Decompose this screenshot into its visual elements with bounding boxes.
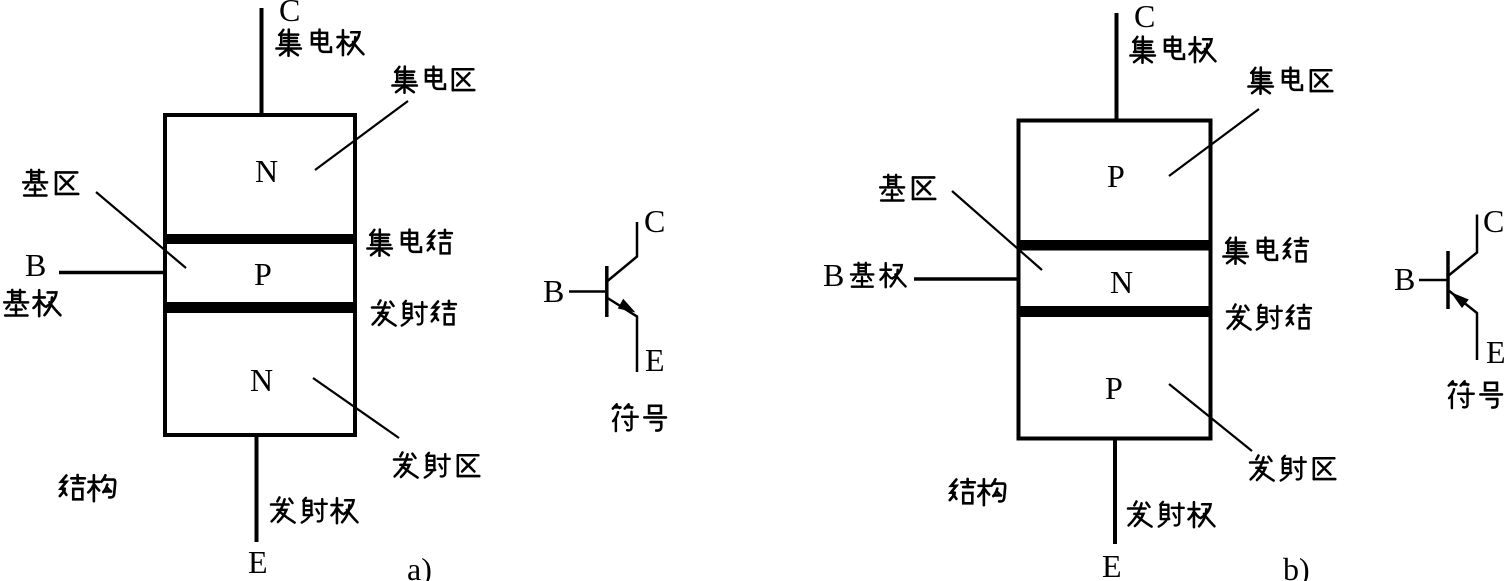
svg-text:C: C: [1483, 203, 1504, 239]
label 集电结 (collector junction): [367, 230, 451, 256]
label 集电极 (collector electrode PNP): [1130, 37, 1215, 63]
PNP structure body outline: [1019, 121, 1211, 439]
svg-text:C: C: [644, 203, 665, 239]
label 发射结 (emitter junction PNP): [1227, 305, 1311, 330]
pointer line: 发射区 to N emitter region: [313, 378, 399, 438]
label 基区 (base region PNP): [880, 175, 935, 201]
label 基区 (base region): [23, 170, 78, 196]
svg-text:E: E: [1486, 334, 1506, 370]
PNP collector junction bar: [1021, 240, 1209, 251]
label 发射极 (emitter electrode PNP): [1128, 502, 1214, 528]
pointer line: 发射区 to P emitter region (PNP): [1169, 384, 1252, 451]
label 发射极 (emitter electrode): [271, 498, 357, 524]
wire: PNP symbol base lead: [1419, 279, 1447, 282]
pointer line: 基区 to N base region (PNP): [952, 191, 1042, 270]
NPN collector junction bar: [167, 234, 353, 244]
label 符号 (symbol PNP): [1449, 381, 1502, 408]
svg-text:E: E: [645, 342, 665, 378]
svg-text:N: N: [1110, 264, 1133, 300]
pointer line: 集电区 to N collector region: [315, 101, 408, 170]
label 结构 (structure): [60, 475, 115, 501]
svg-text:B: B: [823, 257, 844, 293]
PNP emitter junction bar: [1021, 306, 1209, 317]
label 集电区 (collector region PNP): [1248, 68, 1332, 94]
svg-text:B: B: [543, 273, 564, 309]
svg-text:B: B: [25, 247, 46, 283]
pointer line: 基区 to P base region: [96, 192, 186, 268]
wire: NPN collector lead: [260, 8, 264, 115]
NPN symbol collector stroke: [608, 222, 638, 281]
svg-text:C: C: [279, 0, 300, 28]
label 发射结 (emitter junction): [372, 301, 456, 326]
svg-text:C: C: [1134, 0, 1155, 34]
NPN symbol emitter arrow (pointing out): [618, 299, 636, 313]
label 集电极 (collector electrode): [276, 30, 363, 56]
svg-text:a): a): [407, 551, 432, 581]
svg-text:N: N: [250, 362, 273, 398]
PNP symbol base bar: [1446, 251, 1450, 309]
NPN structure body outline: [165, 115, 355, 435]
svg-text:P: P: [1105, 370, 1123, 406]
svg-text:P: P: [254, 256, 272, 292]
NPN emitter junction bar: [167, 302, 353, 313]
label 符号 (symbol): [613, 404, 666, 431]
svg-text:P: P: [1107, 158, 1125, 194]
NPN symbol base bar: [605, 266, 609, 317]
NPN symbol emitter stroke: [608, 298, 638, 372]
wire: PNP emitter lead: [1113, 439, 1117, 544]
label 集电结 (collector junction PNP): [1223, 238, 1307, 264]
PNP symbol emitter arrow (pointing in): [1451, 292, 1469, 308]
pointer line: 集电区 to P collector region (PNP): [1169, 109, 1259, 176]
label 集电区 (collector region): [392, 67, 474, 93]
svg-text:B: B: [1394, 261, 1415, 297]
PNP symbol collector stroke: [1448, 215, 1477, 277]
svg-text:E: E: [248, 544, 268, 580]
label 发射区 (emitter region): [394, 453, 479, 478]
wire: PNP base lead B: [914, 277, 1017, 281]
wire: PNP collector lead: [1115, 13, 1119, 121]
svg-text:E: E: [1102, 548, 1122, 581]
wire: NPN symbol base lead: [569, 290, 605, 293]
svg-text:b): b): [1283, 551, 1310, 581]
label 发射区 (emitter region PNP): [1250, 456, 1335, 481]
wire: NPN emitter lead: [255, 437, 259, 542]
svg-text:N: N: [255, 153, 278, 189]
wire: NPN base lead B: [59, 271, 163, 275]
label 结构 (structure PNP): [950, 479, 1005, 505]
label 基极 (base electrode): [4, 290, 60, 316]
PNP symbol emitter stroke: [1448, 290, 1477, 360]
